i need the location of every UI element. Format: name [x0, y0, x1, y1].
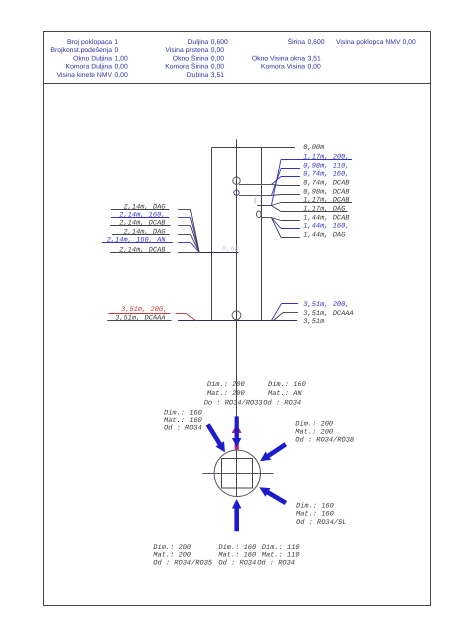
svg-text:1,44m, DAG: 1,44m, DAG [303, 231, 346, 239]
svg-text:2,14m, DCAB: 2,14m, DCAB [119, 246, 165, 254]
svg-text:Od : RO34: Od : RO34 [164, 424, 202, 433]
plan text left [164, 409, 202, 433]
svg-text:2,14m, DAG: 2,14m, DAG [123, 228, 166, 236]
plan square [222, 459, 253, 489]
svg-text:Brojkonst.podešenja: Brojkonst.podešenja [50, 47, 112, 54]
svg-text:Od : RO34: Od : RO34 [263, 399, 301, 408]
svg-text:3,51m, DCAAA: 3,51m, DCAAA [303, 310, 353, 318]
leader for left 2,14m, DCAB [178, 225, 190, 227]
arrow inflow upper-left [206, 423, 225, 452]
red leader [176, 313, 187, 315]
svg-text:0,60: 0,60 [222, 246, 239, 254]
leader2 [274, 313, 284, 321]
svg-text:1,17m, DCAB: 1,17m, DCAB [303, 196, 349, 204]
plan text bottom col2 [218, 543, 256, 568]
plan text bottom-right [296, 502, 346, 528]
svg-text:2,14m, 160, AN: 2,14m, 160, AN [107, 236, 167, 244]
svg-text:0,00m: 0,00m [303, 144, 325, 152]
svg-text:3,51m: 3,51m [303, 318, 325, 326]
svg-text:Okno Duljina: Okno Duljina [73, 55, 112, 62]
svg-text:1,44m, 160,: 1,44m, 160, [303, 222, 349, 230]
svg-text:Mat.: AN: Mat.: AN [268, 390, 302, 398]
leader [272, 304, 282, 321]
pipe line 1,17m [257, 205, 271, 207]
svg-text:0,98m, 110,: 0,98m, 110, [303, 162, 349, 170]
svg-text:1,17m, DAG: 1,17m, DAG [303, 205, 346, 213]
svg-text:Visina poklopca NMV: Visina poklopca NMV [336, 39, 401, 46]
svg-text:0,00: 0,00 [211, 55, 224, 62]
pipe circle C1 at 0,74m [233, 177, 240, 184]
svg-text:1: 1 [115, 39, 119, 46]
plan horizontal axis [202, 473, 273, 475]
svg-text:0,00: 0,00 [115, 72, 128, 79]
svg-text:0,98m, DCAB: 0,98m, DCAB [303, 188, 349, 196]
shaft top line (0,00m level) [212, 147, 296, 149]
leader for 1,44m, DCAB [271, 218, 281, 221]
svg-text:0,00: 0,00 [211, 64, 224, 71]
svg-text:Visina prstena: Visina prstena [165, 47, 208, 54]
svg-text:Mat.: 160: Mat.: 160 [296, 511, 334, 519]
svg-text:0,00: 0,00 [403, 39, 416, 46]
svg-text:Do : RO34/RO33: Do : RO34/RO33 [204, 399, 263, 408]
svg-text:3,51m, 200,: 3,51m, 200, [121, 306, 167, 314]
svg-text:Okno Visina okna: Okno Visina okna [252, 55, 305, 62]
shaft right wall [261, 148, 263, 321]
svg-text:0,00: 0,00 [115, 64, 128, 71]
svg-text:0,74m, 160,: 0,74m, 160, [303, 170, 349, 178]
svg-text:2,14m, DAG: 2,14m, DAG [123, 203, 166, 211]
svg-text:Od : RO34/SL: Od : RO34/SL [296, 518, 346, 527]
svg-text:3,51: 3,51 [308, 55, 321, 62]
leader for 0,74m, 160, [271, 177, 281, 185]
plan text top-right [263, 380, 306, 408]
pipe line 1,44m [261, 217, 271, 219]
page frame [44, 32, 431, 606]
svg-text:Komora Duljina: Komora Duljina [66, 64, 113, 71]
shaft left wall [211, 148, 213, 321]
svg-text:Od : RO34/RO35: Od : RO34/RO35 [153, 558, 213, 567]
leader for 0,74m, DCAB [271, 185, 281, 186]
plan text right [295, 420, 354, 445]
bottom circle C3 at 3,51m [232, 311, 241, 320]
vertical axis line [236, 139, 238, 496]
svg-text:Dim.: 160: Dim.: 160 [296, 502, 334, 511]
leader for 1,17m, 200, [271, 160, 281, 206]
svg-text:Visina kinete NMV: Visina kinete NMV [57, 72, 113, 79]
svg-text:0,600: 0,600 [308, 39, 325, 46]
arrow inflow upper-right [260, 442, 287, 461]
svg-text:Broj poklopaca: Broj poklopaca [67, 39, 112, 46]
pipe line 0,98m [239, 195, 271, 197]
svg-text:0,600: 0,600 [211, 39, 228, 46]
leader for left 2,14m, DAG [178, 234, 190, 236]
svg-text:2,14m, 160,: 2,14m, 160, [119, 211, 165, 219]
svg-text:Mat.: 200: Mat.: 200 [207, 390, 245, 398]
plan circle [214, 450, 260, 496]
leader for 0,98m, DCAB [271, 195, 281, 196]
arrow outflow magenta up [232, 424, 242, 450]
svg-text:Mat.: 200: Mat.: 200 [295, 429, 333, 437]
leader for 1,44m, DAG [271, 218, 281, 238]
leader for left 2,14m, 160, [178, 217, 190, 219]
svg-text:0: 0 [115, 47, 119, 54]
svg-text:1,44m, DCAB: 1,44m, DCAB [303, 214, 349, 222]
svg-text:Okno Širina: Okno Širina [173, 54, 209, 62]
svg-text:0,74m, DCAB: 0,74m, DCAB [303, 179, 349, 187]
svg-text:1,00: 1,00 [115, 55, 128, 62]
svg-text:1,17m, 200,: 1,17m, 200, [303, 153, 349, 161]
plan text top-left [204, 380, 263, 408]
svg-text:Dubina: Dubina [187, 72, 209, 79]
svg-text:Od : RO34: Od : RO34 [257, 558, 295, 567]
leader for 1,17m, DAG [271, 206, 281, 212]
arrow inflow bottom (blue up) [232, 499, 242, 531]
leader for 1,17m, DCAB [271, 203, 281, 206]
arrow inflow lower-right [259, 487, 287, 505]
faint dimension mark at right wall [254, 198, 256, 204]
svg-text:0,00: 0,00 [308, 64, 321, 71]
svg-text:Dim.: 200: Dim.: 200 [295, 420, 333, 429]
leader for left 2,14m, DAG [178, 209, 190, 211]
pipe circle C2 at 0,98m [234, 190, 239, 195]
svg-text:3,51m, 200,: 3,51m, 200, [303, 301, 349, 309]
svg-text:Mat.: 160: Mat.: 160 [218, 551, 256, 559]
header table divider [44, 83, 431, 85]
leader for left 2,14m, 160, AN [178, 242, 190, 244]
pipe line 0,74m [239, 184, 271, 186]
svg-text:Od : RO34: Od : RO34 [218, 558, 256, 567]
svg-text:Dim.: 200: Dim.: 200 [207, 380, 245, 389]
svg-text:Mat.: 200: Mat.: 200 [153, 551, 191, 559]
plan text bottom col1 [153, 543, 213, 568]
arrow inflow top (blue down) [232, 416, 242, 447]
svg-text:Dim.: 160: Dim.: 160 [268, 380, 306, 389]
plan text bottom col3 [257, 543, 299, 568]
svg-text:Komora Visina: Komora Visina [261, 64, 305, 71]
leader for 0,98m, 110, [271, 169, 281, 196]
channel line at 2,14m [199, 252, 238, 254]
leader for 1,44m, 160, [271, 218, 281, 229]
svg-text:Komora Širina: Komora Širina [165, 63, 208, 71]
pipe ellipse at 1,44m [257, 211, 262, 218]
svg-text:2,14m, DCAB: 2,14m, DCAB [119, 219, 165, 227]
svg-text:Od : RO34/RO38: Od : RO34/RO38 [295, 436, 354, 445]
svg-text:3,51m, DCAAA: 3,51m, DCAAA [115, 314, 165, 322]
svg-text:0,00: 0,00 [211, 47, 224, 54]
svg-text:3,51: 3,51 [211, 72, 224, 79]
svg-text:Mat.: 110: Mat.: 110 [262, 551, 300, 559]
svg-text:Duljina: Duljina [188, 39, 209, 46]
shaft bottom line (3,51m level) [178, 320, 297, 322]
svg-text:Širina: Širina [288, 38, 306, 46]
leader for left 2,14m, DCAB [178, 252, 199, 254]
